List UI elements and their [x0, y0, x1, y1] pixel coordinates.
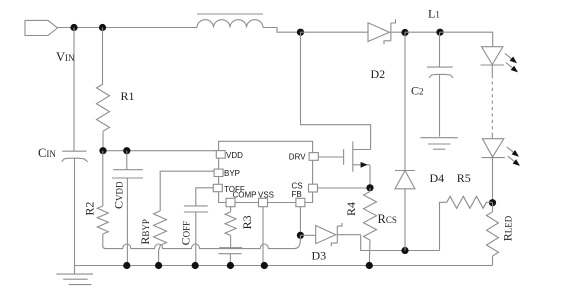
wire LED1 to LED2 dashed: [491, 65, 493, 139]
wire LED2 to R5/RLED node: [492, 158, 494, 203]
pin CS: [292, 182, 318, 192]
svg-text:L1: L1: [428, 7, 440, 21]
svg-text:D2: D2: [371, 67, 386, 81]
resistor R1: [97, 84, 110, 151]
svg-text:VDD: VDD: [226, 151, 243, 160]
svg-text:COMP: COMP: [233, 191, 257, 200]
wire FB node to D3 anode: [300, 234, 315, 236]
pin COMP: [226, 191, 257, 207]
capacitor COFF: [184, 206, 208, 266]
IC U1 body: [219, 141, 313, 202]
resistor RBYP: [154, 211, 167, 266]
node rail COFF: [192, 262, 199, 269]
wire up to R5 left: [440, 202, 447, 250]
node rail RCS: [366, 262, 373, 269]
node VIN junction 1: [70, 24, 77, 31]
diode D2: [368, 19, 405, 44]
node switch junction: [297, 29, 304, 36]
svg-text:D4: D4: [430, 171, 445, 185]
node R2 top junction: [99, 147, 106, 154]
wire TOFF to COFF: [196, 188, 214, 206]
input connector: [25, 20, 58, 35]
node VIN junction 2: [99, 24, 106, 31]
node rail VSS: [261, 262, 268, 269]
pin BYP: [214, 169, 240, 178]
wire R1 column top: [102, 28, 104, 85]
svg-text:R3: R3: [240, 215, 254, 229]
LED D1a: [481, 47, 504, 65]
svg-text:CIN: CIN: [38, 146, 56, 160]
resistor R2: [97, 151, 108, 249]
pin FB: [292, 190, 305, 207]
diode D4: [395, 32, 415, 250]
pin VSS: [258, 191, 274, 207]
ground main: [56, 266, 93, 285]
svg-text:COFF: COFF: [178, 221, 192, 246]
wire BYP to RBYP: [160, 171, 214, 211]
capacitor CVDD: [112, 151, 143, 266]
node CVDD top junction: [123, 147, 130, 154]
capacitor C2: [427, 32, 453, 136]
svg-text:R4: R4: [344, 202, 358, 216]
pin DRV: [289, 153, 319, 162]
node FB D3 junction: [297, 232, 304, 239]
transistor Q1 MOSFET: [344, 142, 371, 188]
svg-text:CVDD: CVDD: [111, 181, 125, 209]
wire CS to RCS top: [318, 187, 371, 189]
wire top rail input to inductor: [58, 27, 198, 29]
pin TOFF: [213, 184, 245, 194]
wire switch node to MOSFET drain: [301, 32, 371, 149]
capacitor CIN: [62, 28, 88, 266]
wire DRV to gate: [318, 156, 343, 158]
node rail CVDD: [123, 262, 130, 269]
svg-text:C2: C2: [411, 84, 424, 98]
wire feedback rail R2 to FB with hops: [106, 235, 300, 248]
svg-text:R1: R1: [121, 89, 135, 103]
pin VDD: [216, 151, 243, 160]
node D2 cathode junction: [401, 29, 408, 36]
wire VDD rail: [103, 150, 216, 152]
resistor RCS: [364, 188, 377, 266]
ground rail bottom: [75, 265, 493, 267]
svg-text:DRV: DRV: [289, 153, 306, 162]
node R5 RLED junction: [489, 199, 496, 206]
svg-text:RLED: RLED: [501, 215, 515, 241]
wire COMP to R3: [230, 207, 232, 212]
svg-text:D3: D3: [312, 248, 327, 262]
node rail C3: [227, 262, 234, 269]
svg-text:RCS: RCS: [378, 212, 397, 226]
svg-text:VIN: VIN: [56, 50, 75, 64]
svg-text:RBYP: RBYP: [138, 219, 152, 245]
resistor RLED: [487, 203, 499, 266]
LED D1a arrows: [505, 53, 518, 72]
svg-text:FB: FB: [292, 190, 302, 199]
wire D2 to C2 node: [405, 31, 440, 33]
LED D1b arrows: [507, 147, 520, 166]
inductor L1: [197, 14, 263, 28]
LED D1b: [481, 139, 504, 158]
svg-text:R5: R5: [457, 171, 471, 185]
node C2 junction: [436, 29, 443, 36]
node RCS top junction: [366, 184, 373, 191]
node rail RBYP: [155, 262, 162, 269]
svg-text:R2: R2: [82, 202, 96, 216]
wire C2 node to LED column: [440, 32, 493, 47]
diode D3: [316, 223, 361, 246]
svg-text:BYP: BYP: [224, 169, 240, 178]
node D4 anode junction: [401, 247, 408, 254]
resistor R5: [447, 196, 493, 208]
capacitor C3 compensation: [218, 248, 242, 266]
wire switch node to D2 anode: [301, 31, 369, 33]
svg-text:VSS: VSS: [258, 191, 274, 200]
wire D3 cathode to R5 net: [361, 235, 440, 251]
resistor R3: [225, 212, 236, 248]
ground under C2: [420, 138, 457, 150]
wire VSS to ground rail: [262, 207, 264, 266]
wire inductor to switch node: [263, 28, 301, 33]
svg-text:CS: CS: [292, 182, 303, 191]
wire FB down to D3 node: [299, 207, 301, 236]
